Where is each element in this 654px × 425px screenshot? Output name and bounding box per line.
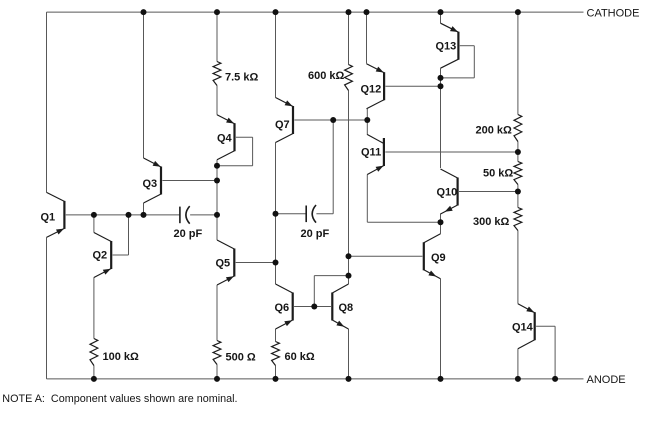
svg-text:Q14: Q14 — [512, 322, 534, 334]
svg-text:500 Ω: 500 Ω — [226, 352, 256, 364]
svg-text:Q3: Q3 — [143, 178, 158, 190]
svg-text:60 kΩ: 60 kΩ — [285, 351, 315, 363]
svg-text:Q13: Q13 — [436, 41, 457, 53]
svg-text:Q1: Q1 — [41, 212, 56, 224]
svg-text:Q2: Q2 — [93, 250, 108, 262]
svg-text:50 kΩ: 50 kΩ — [483, 168, 513, 180]
svg-text:Q8: Q8 — [339, 302, 354, 314]
svg-text:Q6: Q6 — [275, 302, 290, 314]
svg-text:200 kΩ: 200 kΩ — [476, 125, 513, 137]
svg-text:7.5 kΩ: 7.5 kΩ — [225, 72, 258, 84]
svg-text:600 kΩ: 600 kΩ — [308, 70, 345, 82]
svg-text:Q9: Q9 — [431, 252, 446, 264]
svg-text:NOTE A: Component values show: NOTE A: Component values shown are nomin… — [2, 393, 237, 405]
svg-text:100 kΩ: 100 kΩ — [103, 351, 140, 363]
svg-text:Q5: Q5 — [216, 258, 231, 270]
svg-text:300 kΩ: 300 kΩ — [473, 216, 510, 228]
svg-text:Q11: Q11 — [361, 147, 381, 159]
svg-text:20 pF: 20 pF — [301, 228, 330, 240]
svg-text:Q4: Q4 — [217, 133, 233, 145]
svg-text:Q10: Q10 — [437, 187, 458, 199]
svg-text:Q7: Q7 — [275, 119, 290, 131]
svg-text:ANODE: ANODE — [587, 374, 626, 386]
svg-text:20 pF: 20 pF — [174, 228, 203, 240]
svg-text:CATHODE: CATHODE — [587, 8, 640, 20]
svg-text:Q12: Q12 — [361, 84, 382, 96]
